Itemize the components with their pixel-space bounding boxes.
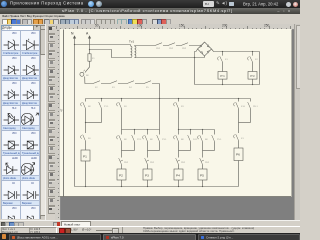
relay coil P6 label — [236, 153, 240, 156]
wire: P3 thermal vertical — [147, 151, 149, 170]
contact P5 seal — [212, 135, 215, 141]
contact F5 — [144, 81, 160, 84]
wire: P5 main vertical upper — [202, 130, 204, 151]
contact P4 feed — [174, 102, 179, 108]
junction bus1 / P6 main — [238, 98, 239, 99]
contact P6 start main — [234, 102, 239, 108]
contact P2 main — [117, 135, 122, 141]
wire: right loop edge — [259, 52, 261, 85]
junction DC plus / K2 branch — [252, 51, 253, 52]
transformer Tv1 primary coil — [131, 45, 132, 58]
contact label P4.1 — [193, 138, 198, 140]
wire: A step to transformer primary bottom — [90, 50, 131, 58]
contact label F4 — [129, 86, 132, 88]
junction bus1 / P1 seal — [101, 98, 102, 99]
wire: P6 start pair rejoin — [239, 122, 251, 124]
contact P5 main — [198, 135, 203, 141]
bridge rectifier VD diamond — [198, 42, 212, 56]
wire: secondary top to PE2 contact chain — [135, 45, 156, 47]
contact P1 start main — [81, 102, 86, 108]
contact label PE2 — [169, 47, 173, 49]
transformer Tv1 secondary coil — [135, 46, 136, 58]
contact F3 — [110, 81, 127, 84]
contact label K1 — [241, 137, 244, 139]
wire: P5 thermal vertical — [202, 151, 204, 170]
contact K1 — [218, 56, 223, 62]
wire: P2 pair rejoin — [122, 150, 135, 152]
contact P3 seal — [157, 135, 160, 141]
contact P3 main — [143, 135, 148, 141]
relay coil P1 label — [83, 155, 87, 158]
fuse F1 — [88, 54, 91, 61]
wire: K1 branch vertical — [222, 52, 224, 72]
wire: P3 seal vertical — [159, 130, 161, 151]
wire: P4 pair rejoin — [179, 150, 191, 152]
wire: phase N vertical drop to bottom rail — [74, 36, 76, 186]
wire: bridge right vertex to DC plus line — [212, 49, 260, 52]
sheet — [60, 29, 293, 197]
contact label F1 — [92, 57, 95, 59]
contact P4 thermal — [176, 158, 180, 164]
wire: P5 seal vertical — [214, 130, 216, 151]
contact label ВК — [181, 138, 184, 140]
relay coil РП1 label — [220, 75, 225, 78]
contact P6 lower — [234, 134, 239, 140]
relay coil P4 label — [176, 174, 180, 177]
contact label F9 — [181, 105, 184, 107]
junction P4 / rail — [178, 186, 179, 187]
contact label P1.1 — [104, 105, 109, 107]
contact P6 start seal — [248, 102, 251, 108]
node A label — [86, 32, 88, 36]
wire: P2 thermal vertical — [121, 151, 123, 170]
wire: P2 main vertical upper — [121, 130, 123, 151]
junction P3 / rail — [147, 186, 148, 187]
wire: K2 branch to rail — [252, 79, 254, 84]
transformer Tv1 label — [129, 40, 134, 43]
wire: P4 main vertical upper — [178, 130, 180, 151]
junction bus / P2 seal — [134, 129, 135, 130]
wire: bottom control rail — [75, 186, 239, 188]
frame label 47 — [60, 108, 63, 111]
junction P5 / rail — [202, 186, 203, 187]
relay coil P3 label — [145, 174, 149, 177]
wire: control bus2 right segment — [179, 129, 215, 131]
contact P1 start seal — [99, 102, 102, 108]
contact label F3 — [112, 86, 115, 88]
contact F2 — [93, 81, 110, 84]
wire: P2 feed vertical — [121, 99, 123, 130]
relay coil P3 box — [143, 169, 152, 180]
junction bus / P4 seal — [190, 129, 191, 130]
pushbutton SB1 stem — [83, 70, 85, 72]
contact P1 lower — [81, 135, 86, 141]
contact label F8 — [124, 105, 127, 107]
contact P2 thermal — [119, 158, 123, 164]
contact label K2 — [255, 58, 258, 60]
right scrollbar — [294, 24, 301, 220]
junction bus1 / P4 feed — [178, 98, 179, 99]
contact PE2 (2) — [168, 43, 181, 46]
wire: button to F-contact row — [85, 77, 93, 84]
junction bus / P4 main — [178, 129, 179, 130]
contact label PE2 — [150, 161, 154, 163]
wire: into bridge top vertex — [202, 42, 205, 46]
contact label ВК — [205, 138, 208, 140]
contact F4 — [127, 81, 144, 84]
contact label P3.1 — [162, 138, 167, 140]
wire: P5 pair rejoin — [203, 150, 215, 152]
contact label PE2 — [182, 47, 186, 49]
contact label P5.1 — [217, 138, 222, 140]
schematic svg overlays whole canvas; coords = page coords via viewBox — [55, 24, 300, 220]
contact P5 thermal — [200, 158, 204, 164]
sheet frame left border — [63, 30, 65, 197]
contact label ВК — [88, 105, 91, 107]
contact label PE2 — [181, 161, 185, 163]
junction bus / P5 main — [202, 129, 203, 130]
wire: fuse to button — [85, 61, 90, 72]
wire: N to transformer primary top — [75, 44, 131, 46]
wire: P4 seal vertical — [190, 130, 192, 151]
contact label ВК — [124, 138, 127, 140]
wire: P6 start seal vertical — [250, 99, 252, 123]
wire: P4 feed vertical — [178, 99, 180, 130]
relay coil P5 label — [200, 174, 204, 177]
contact K2 — [248, 56, 253, 62]
wire: P3 to rail — [147, 180, 149, 187]
relay coil РП1 box — [218, 72, 227, 80]
node N label — [71, 32, 73, 36]
contact label K1 — [225, 58, 228, 60]
junction F-drop / bus1 — [159, 98, 160, 99]
wire: P2 seal vertical — [134, 130, 136, 151]
wire: P4 thermal vertical — [178, 151, 180, 170]
contact label PE.1 — [253, 105, 258, 107]
wire: P1 start seal vertical — [101, 99, 103, 123]
wire: stub to bridge left vertex — [195, 49, 198, 58]
N terminal arrowhead — [73, 36, 75, 38]
wire: P5 to rail — [202, 180, 204, 187]
contact label PE2 — [124, 161, 128, 163]
wire: P4 to rail — [178, 180, 180, 187]
sheet frame bottom border — [60, 196, 292, 198]
contact label F2 — [95, 86, 98, 88]
relay coil P2 box — [117, 169, 126, 180]
junction P2 / rail — [121, 186, 122, 187]
contact P2 feed — [117, 102, 122, 108]
contact P3 thermal — [145, 158, 149, 164]
contact label PE2 — [156, 47, 160, 49]
contact PE2 (3) — [181, 43, 202, 46]
junction P1 rejoin — [85, 122, 86, 123]
wire: P2 to rail — [121, 180, 123, 187]
wire: F-row drop to bus1 and bus2 — [159, 84, 161, 130]
pushbutton SB1 head — [80, 72, 84, 76]
relay coil РП2 label — [250, 75, 255, 78]
relay coil P1 box — [81, 150, 90, 161]
wire: P1 start pair rejoin — [86, 122, 102, 124]
wire: rectifier bottom rail — [195, 84, 260, 86]
wire: K1 branch to rail — [222, 79, 224, 84]
junction A / step wire — [89, 49, 90, 50]
wire: phase A vertical drop — [89, 36, 91, 54]
A terminal arrowhead — [88, 36, 90, 38]
contact PE2 (1) — [155, 43, 168, 46]
junction N / primary wire — [74, 44, 75, 45]
contact label F5 — [146, 86, 149, 88]
junction K1 / rail — [222, 84, 223, 85]
bridge diode ticks — [199, 45, 209, 54]
wire: control bus1 — [86, 98, 251, 100]
junction secondary-bottom / DC minus drop — [194, 57, 195, 58]
junction bus1 / P2 feed — [121, 98, 122, 99]
junction bus / P3 main — [147, 129, 148, 130]
wire: DC minus drop to rectifier rail — [194, 58, 196, 85]
junction DC plus / K1 branch — [222, 51, 223, 52]
relay coil P2 label — [119, 174, 123, 177]
contact P2 seal — [132, 135, 135, 141]
wire: control bus2 left segment — [122, 129, 160, 131]
sheet frame right edge — [291, 30, 293, 197]
wire: P3 pair rejoin — [148, 150, 160, 152]
junction P1 / rail — [85, 186, 86, 187]
junction K2 / rail — [252, 84, 253, 85]
wire: P1 start main vertical upper — [85, 99, 87, 123]
wire: secondary bottom to bridge bottom vertex — [135, 56, 205, 58]
wire: P1 lower vertical — [85, 123, 87, 187]
contact label F6 — [88, 137, 91, 139]
contact P4 seal — [188, 135, 191, 141]
contact label K10 — [241, 105, 245, 107]
contact P4 main — [174, 135, 179, 141]
left ruler — [55, 29, 61, 220]
contact label PE2 — [205, 161, 209, 163]
relay coil P6 box — [234, 148, 243, 161]
contact label P2.1 — [137, 138, 142, 140]
top ruler — [55, 24, 294, 30]
contact label ВК — [86, 74, 89, 76]
contact label ВК — [150, 138, 153, 140]
wire: K2 branch vertical — [252, 52, 254, 72]
relay coil P4 box — [174, 169, 183, 180]
relay coil P5 box — [198, 169, 207, 180]
relay coil РП2 box — [248, 72, 257, 80]
wire: P3 main vertical upper — [147, 130, 149, 151]
wire: P6 start main vertical upper — [238, 99, 240, 123]
wire: P6 lower vertical — [238, 123, 240, 187]
